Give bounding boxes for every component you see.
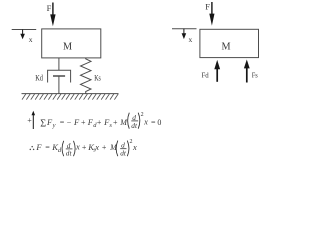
svg-text:x: x bbox=[189, 35, 193, 44]
svg-text:F: F bbox=[73, 117, 80, 127]
damper rod upper bbox=[58, 58, 60, 70]
svg-text:+: + bbox=[113, 118, 118, 127]
datum line (left) bbox=[12, 29, 37, 31]
equation 1: + up-arrow sum F_y = -F + F_d + F_s + M(d/dt)^2 x = 0 bbox=[27, 111, 161, 130]
ground hatching (left) bbox=[22, 94, 118, 100]
svg-text:=: = bbox=[60, 118, 65, 127]
datum line (right) bbox=[172, 28, 197, 30]
svg-text:Fs: Fs bbox=[252, 71, 258, 80]
svg-text:=: = bbox=[45, 143, 50, 152]
close paren bbox=[127, 141, 129, 157]
svg-text:x: x bbox=[29, 35, 33, 44]
svg-text:dt: dt bbox=[131, 121, 138, 130]
open paren bbox=[128, 113, 130, 129]
svg-text:=: = bbox=[151, 118, 156, 127]
mass M box (left) bbox=[42, 29, 101, 58]
open paren bbox=[62, 141, 64, 156]
close paren bbox=[138, 113, 140, 129]
svg-text:−: − bbox=[67, 118, 72, 127]
svg-text:+: + bbox=[82, 143, 87, 152]
damper rod lower bbox=[58, 76, 60, 94]
svg-text:Σ: Σ bbox=[40, 119, 46, 130]
equation 2: therefore F = K_d(d/dt)x + K_s x + M(d/dt)^2 x bbox=[30, 139, 137, 158]
force arrow F (right diagram) bbox=[209, 2, 214, 26]
svg-text:dt: dt bbox=[66, 149, 73, 158]
spring Ks bbox=[81, 58, 92, 94]
damper cup (inverted) bbox=[48, 70, 71, 82]
svg-text:+: + bbox=[102, 143, 107, 152]
force arrow Fd bbox=[214, 60, 220, 82]
svg-text:+: + bbox=[97, 118, 102, 127]
svg-text:dt: dt bbox=[120, 148, 127, 157]
svg-text:F: F bbox=[205, 1, 210, 11]
svg-text:x: x bbox=[132, 142, 137, 152]
svg-text:x: x bbox=[75, 142, 80, 152]
svg-text:+: + bbox=[27, 116, 32, 125]
svg-text:+: + bbox=[81, 118, 86, 127]
svg-text:M: M bbox=[119, 118, 128, 127]
damper piston plate bbox=[53, 75, 65, 77]
svg-text:Kd: Kd bbox=[35, 73, 43, 82]
svg-text:y: y bbox=[52, 122, 56, 129]
svg-text:x: x bbox=[94, 142, 99, 152]
svg-text:x: x bbox=[143, 117, 148, 127]
svg-text:Ks: Ks bbox=[94, 74, 101, 83]
close paren bbox=[74, 141, 76, 156]
svg-text:0: 0 bbox=[157, 118, 161, 127]
open paren bbox=[116, 141, 118, 157]
svg-text:F: F bbox=[35, 142, 42, 152]
force arrow Fs bbox=[244, 60, 250, 83]
sign convention up arrow bbox=[32, 114, 34, 130]
mass M box (right) bbox=[200, 29, 259, 57]
therefore symbol bbox=[31, 146, 33, 148]
svg-text:M: M bbox=[63, 41, 72, 52]
svg-text:M: M bbox=[222, 41, 231, 52]
svg-text:F: F bbox=[47, 3, 52, 13]
datum arrow (left) bbox=[20, 30, 25, 40]
force arrow F (left diagram) bbox=[50, 3, 55, 27]
ground line (left) bbox=[22, 93, 119, 95]
datum arrow (right) bbox=[182, 29, 187, 39]
svg-text:Fd: Fd bbox=[202, 70, 210, 79]
